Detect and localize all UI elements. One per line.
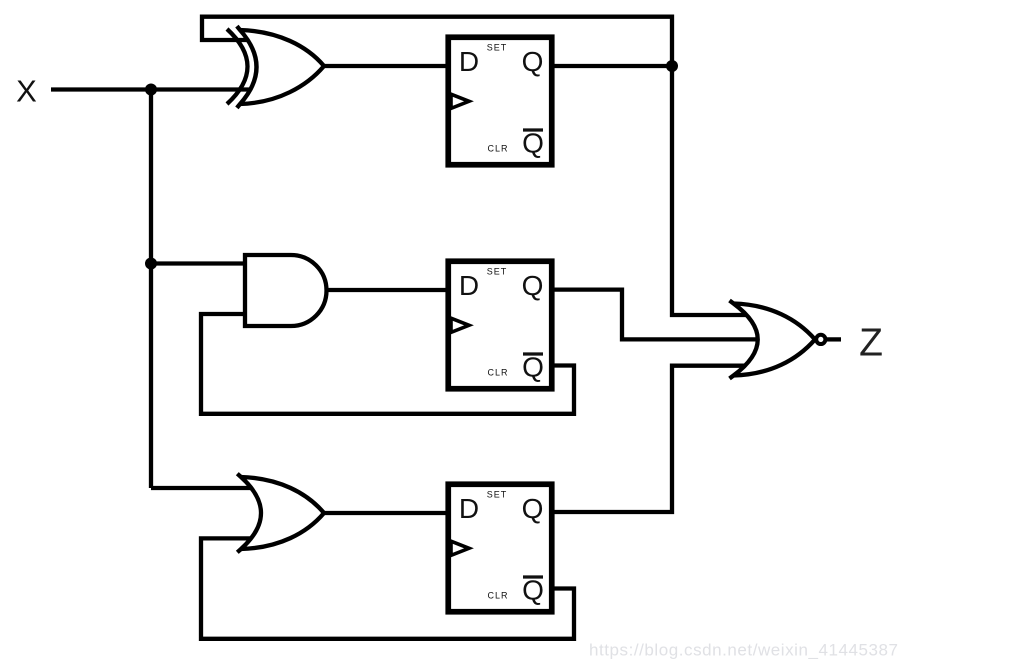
- and gate U2: [245, 255, 326, 326]
- wire: FF2 Q to NOR middle input: [554, 290, 760, 340]
- node: junction on X line at XOR row: [145, 84, 157, 96]
- svg-text:https://blog.csdn.net/weixin_4: https://blog.csdn.net/weixin_41445387: [589, 641, 899, 660]
- wire: NOR output stub to Z: [826, 337, 841, 341]
- flip-flop FF3 box: [448, 484, 552, 612]
- nor gate U4 output bubble: [816, 335, 825, 344]
- flip-flop FF1 box: [448, 37, 552, 165]
- svg-text:SET: SET: [487, 43, 508, 53]
- flip-flop FF2 box: [448, 261, 552, 389]
- svg-text:Z: Z: [859, 322, 883, 365]
- svg-text:CLR: CLR: [487, 591, 508, 601]
- wire: FF3 Q up to NOR bottom input: [554, 366, 748, 512]
- svg-text:Q: Q: [522, 46, 544, 77]
- svg-text:D: D: [459, 46, 479, 77]
- wire: X vertical bus: [149, 90, 153, 489]
- svg-text:Q: Q: [522, 493, 544, 524]
- wire: FF2 Qbar feedback to AND bottom input: [201, 314, 574, 414]
- wire: FF1 Q output: [554, 64, 672, 68]
- wire: top feedback loop to XOR top input: [202, 17, 672, 66]
- wire: branch to AND top input: [151, 261, 248, 265]
- wire: AND output to FF2 D: [325, 288, 449, 292]
- wire: X input horizontal: [51, 87, 250, 91]
- wire: XOR output to FF1 D: [324, 64, 449, 68]
- svg-text:SET: SET: [487, 490, 508, 500]
- svg-text:Q: Q: [522, 352, 544, 383]
- node: junction at FF1 Q feedback: [666, 60, 678, 72]
- svg-text:X: X: [16, 74, 37, 109]
- nor gate U4 body: [734, 304, 816, 376]
- svg-text:Q: Q: [522, 270, 544, 301]
- svg-text:SET: SET: [487, 267, 508, 277]
- wire: branch to OR top input: [151, 486, 252, 490]
- wire: FF3 Qbar feedback to OR bottom input: [201, 538, 574, 638]
- node: junction on X line at AND row: [145, 258, 157, 270]
- svg-text:D: D: [459, 493, 479, 524]
- svg-text:Q: Q: [522, 128, 544, 159]
- wire: OR output to FF3 D: [324, 511, 449, 515]
- svg-text:Q: Q: [522, 575, 544, 606]
- svg-text:CLR: CLR: [487, 368, 508, 378]
- xor gate U1 extra input arc: [227, 29, 248, 104]
- xor gate U1 body: [240, 30, 324, 104]
- or gate U3: [241, 477, 324, 549]
- svg-text:D: D: [459, 270, 479, 301]
- svg-text:CLR: CLR: [487, 144, 508, 154]
- wire: FF1 Q down to NOR top input: [672, 66, 748, 315]
